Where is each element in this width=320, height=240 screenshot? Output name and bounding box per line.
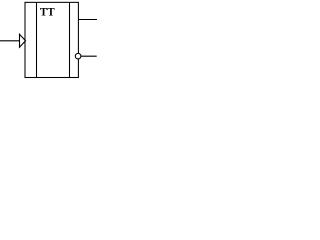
right field divider: [69, 2, 71, 77]
inversion bubble on Q-bar output: [75, 53, 81, 59]
wire: Q output net: [78, 19, 97, 21]
dynamic clock input arrowhead: [20, 34, 26, 47]
left field divider: [36, 2, 38, 77]
svg-text:TT: TT: [40, 5, 55, 19]
flip-flop U1 body: [25, 2, 78, 77]
wire: inverted Q output net: [81, 55, 97, 57]
wire: clock input net: [0, 40, 20, 42]
